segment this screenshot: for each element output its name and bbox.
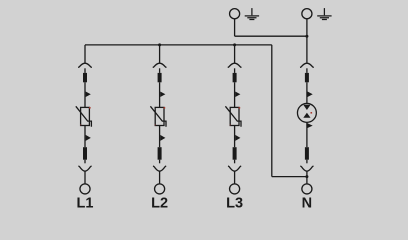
junction node on top bus at L2 branch <box>158 43 161 46</box>
thermal disconnect arrow (upper) L2 branch <box>160 92 165 98</box>
disconnector contact bar (lower) L2 branch <box>158 147 162 160</box>
wire PE junction down to N module socket <box>306 36 308 63</box>
varistor RV2 diagonal with foot <box>150 106 166 127</box>
thermal disconnect arrow (upper) N branch <box>308 92 313 98</box>
varistor RV2 faint red mark bottom-left <box>155 124 156 125</box>
pluggable socket arc (bottom) L3 branch <box>228 166 241 171</box>
wire module pin L3 <box>234 68 236 73</box>
wire to varistor RV1 <box>84 82 86 107</box>
thermal disconnect arrow (lower) L1 branch <box>86 135 91 141</box>
pluggable socket arc (top) N branch <box>300 63 314 67</box>
ground symbol (right) <box>317 8 331 19</box>
pluggable socket arc (top) L3 branch <box>228 63 242 67</box>
varistor RV2 body <box>155 107 164 125</box>
varistor RV2 red status dot top-right <box>164 107 166 109</box>
pluggable socket arc (top) L1 branch <box>78 63 92 67</box>
varistor RV1 body <box>81 107 90 125</box>
wire to terminal N <box>306 171 308 184</box>
wire to varistor RV2 <box>159 82 161 107</box>
varistor RV1 diagonal with foot <box>76 106 92 127</box>
wire to bottom socket L3 <box>234 160 236 164</box>
wire bus drop to L1 module socket <box>84 45 86 63</box>
disconnector contact bar (upper) N branch <box>305 73 309 82</box>
wire right PE terminal drop <box>306 19 308 36</box>
disconnector contact bar (upper) L2 branch <box>158 73 162 82</box>
disconnector contact bar (upper) L3 branch <box>233 73 237 82</box>
wire to varistor RV3 <box>234 82 236 107</box>
svg-text:N: N <box>302 196 312 212</box>
thermal disconnect arrow (lower) N branch <box>308 123 313 128</box>
thermal disconnect arrow (lower) L2 branch <box>160 135 165 141</box>
pluggable socket arc (bottom) L1 branch <box>78 166 91 171</box>
wire below varistor RV3 <box>234 126 236 148</box>
varistor RV1 faint red mark bottom-left <box>80 124 81 125</box>
wire below varistor RV1 <box>84 126 86 148</box>
varistor RV3 faint red mark bottom-left <box>230 124 231 125</box>
varistor RV3 red status dot top-right <box>239 107 241 109</box>
terminal circle L1 <box>80 184 90 194</box>
svg-text:L2: L2 <box>151 196 168 212</box>
gas discharge tube upper electrode (down arrow) <box>303 105 310 110</box>
disconnector contact bar (lower) L1 branch <box>83 147 87 160</box>
wire to terminal L2 <box>159 171 161 184</box>
wire PE horizontal link <box>235 35 307 37</box>
thermal disconnect arrow (upper) L3 branch <box>235 92 240 98</box>
terminal circle N <box>302 184 312 194</box>
wire bus drop to L2 module socket <box>159 45 161 63</box>
wire to gas discharge tube <box>306 82 308 103</box>
wire to terminal L3 <box>234 171 236 184</box>
wire top common bus <box>85 44 272 46</box>
ground symbol (left) <box>245 8 259 19</box>
thermal disconnect arrow (upper) L1 branch <box>86 92 91 98</box>
terminal circle L3 <box>230 184 240 194</box>
svg-text:L1: L1 <box>77 196 94 212</box>
wire to bottom socket L1 <box>84 160 86 164</box>
gas discharge tube lower electrode (up arrow) <box>303 113 310 118</box>
PE terminal circle (left) <box>230 9 240 19</box>
wire below varistor RV2 <box>159 126 161 148</box>
wire bus drop to L3 module socket <box>234 45 236 63</box>
disconnector contact bar (lower) N branch <box>305 147 309 160</box>
disconnector contact bar (upper) L1 branch <box>83 73 87 82</box>
terminal circle L2 <box>155 184 165 194</box>
wire common loop vertical <box>271 45 273 177</box>
wire module pin N <box>306 68 308 73</box>
wire module pin L2 <box>159 68 161 73</box>
gas discharge tube red status dot <box>311 112 313 114</box>
PE terminal circle (right) <box>302 9 312 19</box>
junction node on top bus at L3 branch <box>233 43 236 46</box>
pluggable socket arc (bottom) L2 branch <box>153 166 166 171</box>
wire left PE terminal drop <box>234 19 236 36</box>
pluggable socket arc (top) L2 branch <box>153 63 167 67</box>
gas discharge tube F1 circle <box>297 103 316 122</box>
disconnector contact bar (lower) L3 branch <box>233 147 237 160</box>
thermal disconnect arrow (lower) L3 branch <box>235 135 240 141</box>
varistor RV3 body <box>230 107 239 125</box>
varistor RV3 diagonal with foot <box>225 106 241 127</box>
wire to bottom socket N <box>306 160 308 164</box>
wire below gas discharge tube <box>306 122 308 147</box>
varistor RV1 red status dot top-right <box>89 107 91 109</box>
wire to bottom socket L2 <box>159 160 161 164</box>
svg-text:L3: L3 <box>226 196 243 212</box>
wire to terminal L1 <box>84 171 86 184</box>
junction node PE link with N branch <box>305 35 308 38</box>
wire common loop horizontal to N <box>272 176 307 178</box>
junction node N stem with L-common loop <box>305 175 308 178</box>
pluggable socket arc (bottom) N branch <box>300 166 313 171</box>
wire module pin L1 <box>84 68 86 73</box>
